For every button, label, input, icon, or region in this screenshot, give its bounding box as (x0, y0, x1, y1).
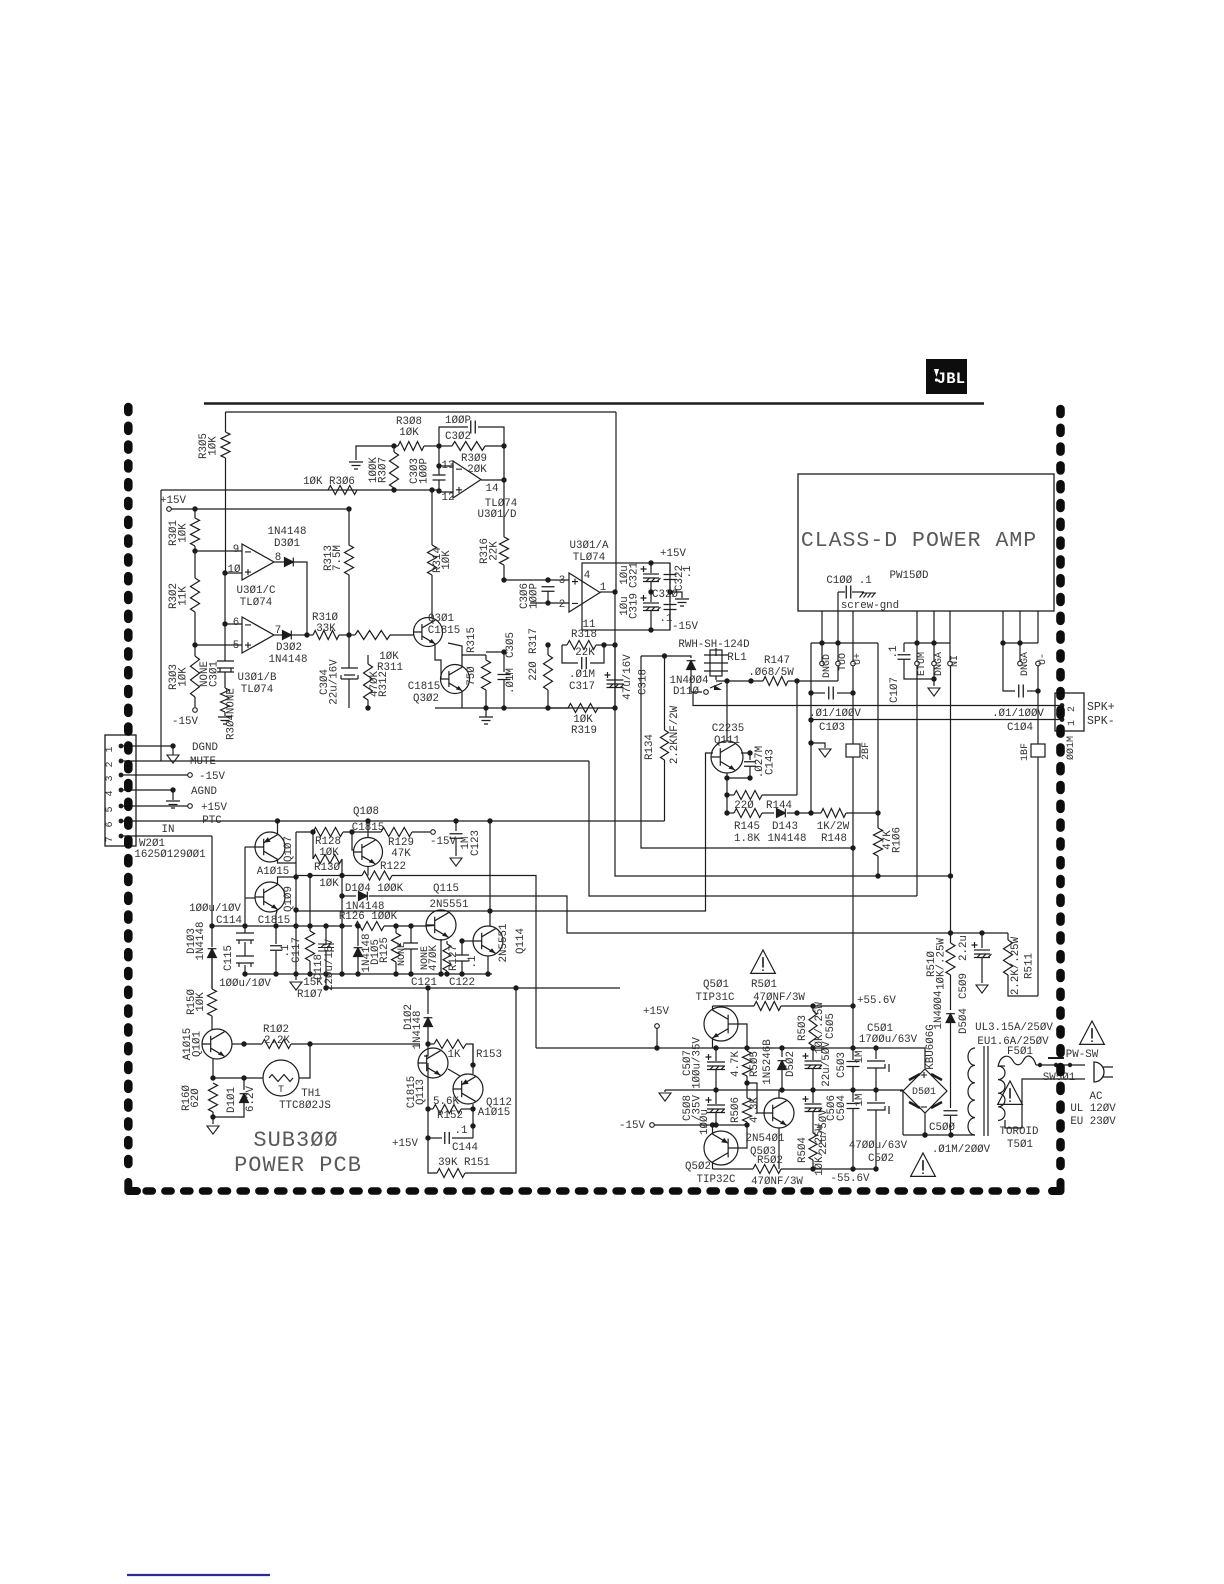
svg-text:R13Ø: R13Ø (314, 862, 340, 874)
wire Q113-Q112 (448, 1069, 460, 1076)
wire Q111 emitter (726, 773, 728, 813)
bridge D501 (903, 1069, 947, 1113)
left dashed border (124, 407, 133, 1176)
wire mute col 296 (295, 863, 297, 974)
svg-text:R317: R317 (528, 628, 540, 654)
svg-text:47u/16V: 47u/16V (622, 654, 634, 700)
svg-text:MUTE: MUTE (190, 756, 216, 768)
capacitor C104 (1003, 643, 1015, 691)
transistor Q114 (473, 926, 503, 956)
pin stubs CLASS-D (821, 611, 823, 643)
svg-text:T: T (278, 1085, 284, 1096)
svg-text:2N5551: 2N5551 (430, 899, 469, 911)
wire mute bundle (589, 761, 917, 896)
svg-text:C3Ø1: C3Ø1 (209, 661, 221, 687)
svg-text:TIP31C: TIP31C (696, 992, 735, 1004)
svg-text:EU 23ØV: EU 23ØV (1070, 1116, 1116, 1128)
toroid T501 (968, 1048, 975, 1135)
resistor R502 (713, 1168, 754, 1170)
svg-text:POWER PCB: POWER PCB (234, 1153, 362, 1178)
transistor Q107 (255, 832, 285, 862)
svg-text:A1Ø15: A1Ø15 (257, 866, 289, 878)
resistor R134 (664, 656, 666, 730)
resistor R148 (797, 812, 821, 814)
svg-text:4.3K: 4.3K (749, 1097, 761, 1123)
capacitor C143 (741, 753, 750, 760)
rail +15 y1048 (536, 1048, 925, 1068)
capacitor C103 (811, 692, 825, 694)
pin +V (852, 643, 854, 661)
svg-text:C122: C122 (449, 977, 475, 989)
svg-text:C3Ø5: C3Ø5 (505, 632, 517, 658)
pin rail right (1003, 642, 1038, 644)
svg-text:C114: C114 (216, 915, 242, 927)
svg-text:R127: R127 (448, 945, 460, 971)
node +15V (167, 507, 172, 512)
wire Q302 emitter (461, 691, 463, 708)
svg-text:D11Ø: D11Ø (673, 686, 699, 698)
svg-text:2.2K/.25W: 2.2K/.25W (1010, 936, 1022, 995)
wire TH1 (213, 1077, 263, 1079)
resistor R102 (244, 1043, 262, 1045)
svg-text:9: 9 (233, 544, 239, 556)
ground R308 (349, 462, 363, 469)
svg-text:Q114: Q114 (515, 928, 527, 954)
transistor Q301 (414, 618, 443, 647)
svg-text:2.2K: 2.2K (264, 1035, 290, 1047)
svg-text:R5Ø4: R5Ø4 (797, 1137, 809, 1163)
svg-text:R148: R148 (821, 833, 847, 845)
capacitor C508 (715, 1090, 717, 1104)
resistor R160 (209, 1083, 218, 1112)
svg-text:1ØØu/35V: 1ØØu/35V (692, 1037, 704, 1089)
svg-text:C5Ø3: C5Ø3 (836, 1052, 848, 1078)
toroid wires (902, 1090, 904, 1135)
wire bundle A end (535, 1047, 537, 1049)
resistor R308 (398, 442, 424, 451)
svg-text:U3Ø1/C: U3Ø1/C (237, 585, 276, 597)
resistor R501 (713, 1005, 755, 1007)
svg-text:SPK+: SPK+ (1087, 701, 1115, 714)
svg-text:R5Ø5: R5Ø5 (749, 1051, 761, 1077)
transistor Q101 (202, 1029, 232, 1059)
ground (461, 707, 463, 709)
wire Q101 collector (232, 1043, 244, 1045)
svg-text:R125: R125 (379, 937, 391, 963)
svg-text:U3Ø1/A: U3Ø1/A (570, 540, 609, 552)
svg-text:RL1: RL1 (727, 652, 746, 664)
wire Q107 collector (278, 859, 297, 863)
wire Q114 emitter (487, 956, 489, 974)
svg-text:1ØØP: 1ØØP (445, 415, 471, 427)
svg-text:4.7K: 4.7K (730, 1051, 742, 1077)
wire IN vertical (950, 666, 952, 933)
svg-text:1N4148: 1N4148 (269, 654, 308, 666)
svg-text:PW-SW: PW-SW (1066, 1049, 1099, 1061)
svg-text:6: 6 (233, 617, 239, 629)
resistor R511 (1007, 933, 1009, 940)
svg-text:D5Ø1: D5Ø1 (912, 1086, 936, 1098)
svg-text:TLØ74: TLØ74 (573, 552, 605, 564)
svg-text:2N5551: 2N5551 (498, 924, 510, 963)
rail y875 (296, 875, 362, 877)
wire relay box (641, 655, 686, 657)
long vertical feedback wire (615, 412, 617, 592)
svg-text:D3Ø2: D3Ø2 (276, 642, 302, 654)
inner box left edge (160, 490, 162, 761)
diode D502 (781, 1048, 783, 1057)
svg-text:1N5246B: 1N5246B (762, 1039, 774, 1085)
svg-text:screw-gnd: screw-gnd (841, 600, 899, 612)
wire Q502 base (738, 1125, 747, 1148)
svg-text:JBL: JBL (937, 370, 966, 388)
wire Q502 (712, 1125, 714, 1134)
transistor Q115 (426, 910, 456, 940)
svg-text:TIP32C: TIP32C (697, 1174, 736, 1186)
wire bundle A (409, 876, 536, 1049)
pin AGND1 (932, 661, 937, 666)
diode D104 (342, 895, 356, 897)
svg-text:.Ø1/1ØØV: .Ø1/1ØØV (992, 708, 1044, 720)
svg-text:C5Ø5: C5Ø5 (825, 1013, 837, 1039)
svg-text:C5Ø2: C5Ø2 (868, 1153, 894, 1165)
svg-text:7: 7 (105, 836, 116, 842)
svg-text:1ØK R3Ø6: 1ØK R3Ø6 (303, 476, 355, 488)
capacitor C121 (410, 926, 412, 943)
ground arrow 15K (295, 974, 297, 980)
svg-text:UL3.15A/25ØV: UL3.15A/25ØV (975, 1022, 1053, 1034)
svg-text:C5Ø4: C5Ø4 (836, 1095, 848, 1121)
resistor R147 (716, 680, 763, 682)
svg-text:TLØ74: TLØ74 (241, 684, 273, 696)
svg-text:1ØK: 1ØK (178, 667, 190, 687)
svg-text:A1Ø15: A1Ø15 (478, 1107, 510, 1119)
resistor R319 (548, 707, 568, 709)
wire Q111 collector (726, 681, 728, 741)
capacitor C306 (542, 587, 555, 592)
svg-text:1ØK: 1ØK (441, 550, 453, 570)
svg-text:C318: C318 (638, 669, 650, 695)
resistor R317 (544, 655, 553, 690)
DGND arrow ground (172, 746, 174, 755)
agnd mid (664, 1090, 666, 1092)
svg-text:5: 5 (105, 806, 116, 812)
capacitor C509 (981, 933, 983, 948)
capacitor C321 (650, 563, 652, 573)
diode D301 (274, 561, 285, 563)
resistor R150 (208, 989, 217, 1016)
svg-text:C5Ø9: C5Ø9 (958, 973, 970, 999)
svg-text:U3Ø1/B: U3Ø1/B (238, 672, 277, 684)
wire SPK- line (811, 719, 1062, 721)
svg-text:.1: .1 (455, 1125, 468, 1137)
svg-text:1ØØP: 1ØØP (529, 583, 541, 609)
svg-text:D3Ø1: D3Ø1 (274, 538, 300, 550)
svg-text:R134: R134 (644, 734, 656, 760)
svg-text:C1ØØ .1: C1ØØ .1 (826, 575, 871, 587)
svg-text:47ØØu/63V: 47ØØu/63V (849, 1140, 908, 1152)
svg-text:R5Ø6: R5Ø6 (730, 1097, 742, 1123)
svg-text:47ØNF/3W: 47ØNF/3W (753, 992, 805, 1004)
resistor R510 (950, 933, 952, 943)
svg-text:EU1.6A/25ØV: EU1.6A/25ØV (977, 1036, 1049, 1048)
wire U301C-U301B vertical (224, 573, 226, 661)
footer blue line (127, 1574, 270, 1576)
svg-text:R122: R122 (380, 861, 406, 873)
svg-text:D5Ø2: D5Ø2 (785, 1051, 797, 1077)
diode D110 (686, 656, 691, 658)
svg-text:R5Ø1: R5Ø1 (751, 979, 777, 991)
pin2 MUTE wire (123, 760, 589, 762)
svg-text:C144: C144 (452, 1142, 478, 1154)
svg-text:5.6K: 5.6K (433, 1096, 459, 1108)
svg-text:C3Ø2: C3Ø2 (445, 431, 471, 443)
svg-text:-15V: -15V (672, 621, 698, 633)
svg-text:1ØK: 1ØK (208, 436, 220, 456)
resistor R314 (431, 490, 433, 545)
svg-text:22u/5ØV: 22u/5ØV (818, 1109, 830, 1155)
wire pin12 (438, 466, 440, 475)
resistor R152 (427, 1063, 429, 1109)
svg-text:-55.6V: -55.6V (831, 1173, 870, 1185)
capacitor C503 (852, 1006, 854, 1060)
capacitor C303 (433, 475, 446, 480)
svg-text:RWH-SH-124D: RWH-SH-124D (678, 639, 749, 651)
svg-text:C1815: C1815 (408, 681, 440, 693)
wire R147 drop (796, 681, 798, 795)
svg-text:C1Ø7: C1Ø7 (889, 677, 901, 703)
svg-text:2: 2 (559, 599, 565, 611)
svg-text:NONE: NONE (397, 942, 408, 966)
wire D102 column (427, 988, 429, 1014)
svg-text:ØØ1M: ØØ1M (1065, 736, 1077, 760)
wire R128 left drop (295, 832, 297, 863)
resistor R122 (362, 871, 392, 880)
resistor R302 (191, 578, 200, 612)
wire SPK+ line (693, 692, 1062, 706)
capacitor C122 (461, 940, 463, 955)
svg-text:C117: C117 (291, 937, 303, 963)
pin OUT (837, 643, 839, 661)
svg-text:R126 1ØØK: R126 1ØØK (339, 911, 398, 923)
svg-text:PW15ØD: PW15ØD (890, 570, 929, 582)
svg-text:Q1Ø1: Q1Ø1 (192, 1031, 204, 1057)
pin7 IN wire (123, 835, 212, 837)
capacitor C117 (275, 926, 277, 944)
resistor R129 (381, 828, 412, 837)
svg-text:47ØNF/3W: 47ØNF/3W (751, 1176, 803, 1188)
svg-text:1K/2W: 1K/2W (817, 821, 850, 833)
wire Q107 base feed (245, 846, 255, 848)
thermistor TH1 (263, 1060, 299, 1096)
wire R102 right (310, 1043, 420, 1045)
resistor R312 (364, 664, 373, 700)
wire output (600, 591, 615, 593)
right dashed border (1056, 409, 1065, 1176)
transistor Q108 (354, 838, 383, 867)
svg-text:CLASS-D POWER AMP: CLASS-D POWER AMP (801, 529, 1037, 553)
ground rail mid (435, 707, 615, 709)
ground (218, 717, 232, 724)
connector M100 (1055, 693, 1084, 731)
svg-text:R152: R152 (437, 1110, 463, 1122)
diode D105 (341, 926, 343, 974)
wire pin13 (439, 446, 453, 466)
svg-text:C121: C121 (411, 977, 437, 989)
svg-text:C5ØØ: C5ØØ (929, 1122, 955, 1134)
ferrite bead FB1 (1031, 744, 1045, 757)
svg-text:U3Ø1/D: U3Ø1/D (478, 509, 517, 521)
wire Q115 emitter (440, 939, 442, 974)
wire pin9 (195, 550, 242, 552)
switch SW501 (1038, 1063, 1042, 1067)
resistor R309 (439, 445, 452, 447)
svg-text:NI: NI (950, 655, 961, 667)
bottom rail (903, 1134, 975, 1136)
svg-text:R312: R312 (378, 671, 390, 697)
svg-text:.Ø68/5W: .Ø68/5W (748, 667, 794, 679)
relay contact (704, 690, 709, 695)
svg-text:11: 11 (583, 619, 596, 631)
wire bundle D (296, 753, 713, 911)
transistor Q111 (711, 741, 743, 773)
svg-text:33K: 33K (316, 623, 336, 635)
svg-text:1N4148: 1N4148 (768, 833, 807, 845)
svg-text:+15V: +15V (643, 1006, 669, 1018)
svg-text:R145: R145 (734, 821, 760, 833)
capacitor C502 (875, 1090, 877, 1101)
node rail y926 (212, 925, 352, 927)
pin AGND2 (1018, 661, 1023, 666)
svg-text:15K: 15K (303, 977, 323, 989)
svg-text:6.2V: 6.2V (245, 1086, 257, 1112)
wire pin5 (195, 644, 242, 646)
transistor Q109 (255, 882, 285, 912)
wire Q101 emitter (212, 1059, 214, 1078)
op-amp U301/D (453, 461, 481, 498)
svg-text:62Ø: 62Ø (190, 1088, 202, 1108)
wire Q108 base (352, 832, 354, 850)
wire bundle C (615, 645, 951, 876)
rail y988 (326, 987, 620, 989)
svg-text:2ØK: 2ØK (467, 464, 487, 476)
svg-text:R1Ø7: R1Ø7 (297, 989, 323, 1001)
resistor R503 (809, 1011, 817, 1046)
capacitor C320 (669, 592, 671, 602)
svg-text:2: 2 (1067, 706, 1078, 712)
wire Q301-Q302 (435, 644, 441, 679)
svg-text:R153: R153 (476, 1049, 502, 1061)
svg-text:1M: 1M (854, 1051, 866, 1064)
pin rail left (811, 642, 878, 644)
svg-text:Q115: Q115 (433, 883, 459, 895)
capacitor 220u/15V (325, 926, 327, 944)
pin6 PTC wire (123, 820, 665, 822)
pin DGND (821, 643, 823, 661)
wire Q115 base (426, 925, 434, 928)
connector W201 (105, 735, 136, 846)
svg-text:+15V: +15V (201, 802, 227, 814)
resistor R304 (221, 688, 230, 712)
resistor R506 (746, 1090, 748, 1098)
svg-text:1K: 1K (448, 1049, 461, 1061)
svg-text:1ØØu: 1ØØu (699, 1109, 711, 1135)
power box U301A (582, 563, 670, 630)
svg-text:R511: R511 (1024, 953, 1036, 979)
capacitor C507 (715, 1048, 717, 1061)
resistor R315 (482, 660, 491, 690)
capacitor C318 47u/16V (614, 645, 616, 708)
resistor R307 (390, 452, 399, 488)
svg-text:1BF: 1BF (1020, 743, 1031, 761)
wire Q503 (778, 1090, 780, 1098)
resistor R145 (734, 809, 762, 818)
svg-text:C1Ø3: C1Ø3 (819, 722, 845, 734)
diode D103 (211, 836, 213, 926)
svg-text:SPK-: SPK- (1087, 715, 1115, 728)
svg-text:.1: .1 (660, 613, 673, 625)
wire vertical 878 (877, 643, 879, 813)
warning triangle C502 (911, 1153, 936, 1176)
svg-text:3: 3 (105, 775, 116, 781)
svg-text:17ØØu/63V: 17ØØu/63V (859, 1034, 918, 1046)
capacitor C322 (669, 563, 671, 572)
capacitor C505 (812, 1048, 814, 1060)
svg-text:14: 14 (486, 483, 499, 495)
wire Q109 collector (276, 909, 278, 926)
svg-text:C321: C321 (629, 562, 641, 588)
wire bridge west (900, 1090, 903, 1092)
diode D143 (777, 809, 786, 818)
svg-text:Q3Ø2: Q3Ø2 (413, 693, 439, 705)
svg-text:39K R151: 39K R151 (438, 1157, 490, 1169)
svg-text:47K: 47K (391, 848, 411, 860)
svg-text:1: 1 (1067, 720, 1078, 726)
svg-text:R5Ø3: R5Ø3 (797, 1015, 809, 1041)
capacitor C304 (348, 635, 350, 668)
CLASS-D POWER AMP box (798, 474, 1054, 611)
wire Q109 base (245, 897, 255, 899)
resistor R316 (500, 537, 509, 565)
svg-text:T5Ø1: T5Ø1 (1007, 1139, 1033, 1151)
op-amp U301/B (242, 617, 274, 653)
svg-text:2.2u: 2.2u (958, 935, 970, 961)
mid rail 0V (665, 1089, 903, 1091)
svg-text:R3Ø7: R3Ø7 (378, 457, 390, 483)
svg-text:D1Ø1: D1Ø1 (226, 1087, 238, 1113)
wire top loop (226, 411, 617, 413)
zener D101 (243, 1078, 245, 1090)
svg-text:KBU6Ø6G: KBU6Ø6G (925, 1024, 937, 1069)
wire Q114 collector (489, 821, 491, 926)
svg-text:DNGD: DNGD (822, 654, 833, 678)
warning triangle toroid (998, 1081, 1023, 1104)
svg-text:U+: U+ (853, 653, 864, 665)
wire U301/D out (481, 479, 504, 481)
wire bridge south (924, 1113, 926, 1135)
svg-text:+15V: +15V (392, 1138, 418, 1150)
resistor R305 (225, 412, 227, 432)
resistor R313 (348, 509, 350, 545)
svg-text:.1: .1 (888, 646, 900, 659)
svg-text:1ØK: 1ØK (399, 427, 419, 439)
resistor R303 (194, 645, 196, 656)
resistor R106 (877, 813, 879, 828)
resistor R128 (296, 831, 313, 833)
resistor R127 (443, 944, 451, 971)
diode D302 (274, 634, 283, 636)
svg-text:TH1: TH1 (301, 1088, 320, 1100)
